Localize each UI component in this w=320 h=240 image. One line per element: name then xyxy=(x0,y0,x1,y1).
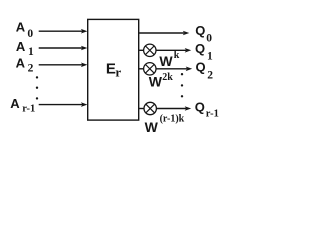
svg-text:r-1: r-1 xyxy=(22,104,35,115)
svg-text:2k: 2k xyxy=(162,72,173,83)
svg-text:Q: Q xyxy=(195,41,205,56)
svg-text:A: A xyxy=(10,96,20,111)
svg-text:A: A xyxy=(16,39,26,54)
svg-text:A: A xyxy=(16,55,26,70)
svg-text:Q: Q xyxy=(195,23,205,38)
svg-text:W: W xyxy=(159,53,173,69)
svg-text:2: 2 xyxy=(207,70,213,82)
svg-text:1: 1 xyxy=(28,46,34,58)
svg-text:(r-1)k: (r-1)k xyxy=(160,114,185,125)
svg-text:2: 2 xyxy=(28,63,34,75)
svg-text:Q: Q xyxy=(196,59,206,74)
svg-text:0: 0 xyxy=(206,33,212,45)
svg-text:r-1: r-1 xyxy=(206,109,219,120)
svg-text:W: W xyxy=(149,74,163,90)
svg-text:1: 1 xyxy=(207,51,213,63)
svg-text:k: k xyxy=(174,50,180,61)
svg-text:0: 0 xyxy=(27,28,33,40)
svg-text:W: W xyxy=(145,119,159,135)
svg-text:r: r xyxy=(115,64,121,79)
svg-text:A: A xyxy=(16,20,26,35)
svg-text:Q: Q xyxy=(195,99,205,114)
